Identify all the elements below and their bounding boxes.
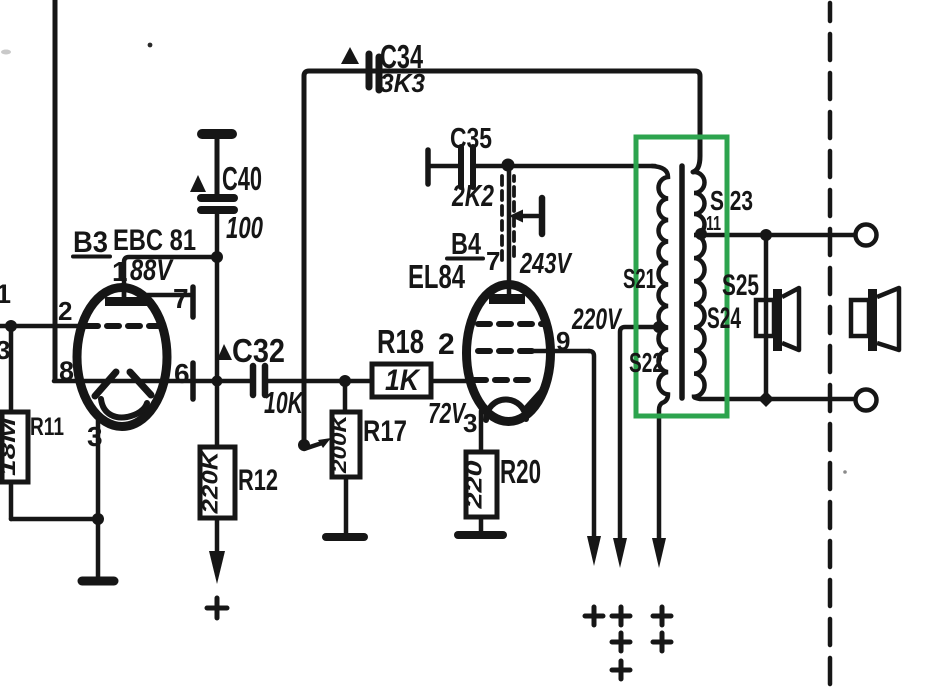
svg-text:1K: 1K	[385, 364, 421, 397]
svg-text:2: 2	[438, 328, 455, 361]
svg-text:EL84: EL84	[408, 258, 465, 295]
svg-text:243V: 243V	[519, 248, 573, 280]
svg-text:3: 3	[0, 335, 10, 365]
svg-text:EBC 81: EBC 81	[113, 224, 196, 257]
svg-text:R20: R20	[500, 453, 541, 490]
svg-text:S24: S24	[707, 302, 741, 335]
svg-text:200K: 200K	[329, 413, 351, 474]
svg-text:3: 3	[463, 408, 477, 438]
svg-text:2K2: 2K2	[451, 178, 494, 213]
svg-text:9: 9	[556, 326, 570, 356]
svg-text:10K: 10K	[264, 385, 305, 420]
svg-text:S 23: S 23	[710, 185, 753, 216]
svg-text:7: 7	[173, 283, 189, 314]
svg-text:72V: 72V	[428, 398, 467, 430]
svg-text:11: 11	[706, 213, 721, 235]
svg-text:R18: R18	[377, 323, 424, 360]
svg-text:220V: 220V	[571, 303, 623, 336]
svg-text:2: 2	[58, 296, 72, 326]
svg-text:R11: R11	[30, 413, 64, 441]
svg-text:100: 100	[226, 210, 263, 245]
svg-text:S25: S25	[722, 269, 759, 302]
svg-text:88V: 88V	[130, 254, 174, 287]
svg-text:R12: R12	[238, 464, 278, 497]
svg-text:S22: S22	[629, 347, 663, 378]
svg-text:C35: C35	[450, 123, 492, 155]
svg-text:C32: C32	[232, 332, 285, 369]
svg-text:3K3: 3K3	[380, 68, 426, 98]
svg-text:8: 8	[59, 356, 74, 386]
svg-text:1: 1	[0, 279, 11, 309]
svg-text:C40: C40	[222, 160, 262, 197]
svg-text:1: 1	[112, 256, 128, 287]
svg-text:18M: 18M	[0, 417, 20, 476]
svg-text:S21: S21	[623, 263, 656, 294]
svg-text:3: 3	[87, 421, 103, 452]
svg-text:220K: 220K	[198, 449, 223, 515]
svg-text:220: 220	[462, 460, 487, 510]
svg-text:B4: B4	[451, 226, 482, 261]
svg-text:6: 6	[174, 358, 190, 389]
svg-text:7: 7	[486, 246, 500, 276]
svg-text:R17: R17	[363, 415, 407, 448]
svg-text:B3: B3	[73, 226, 108, 259]
